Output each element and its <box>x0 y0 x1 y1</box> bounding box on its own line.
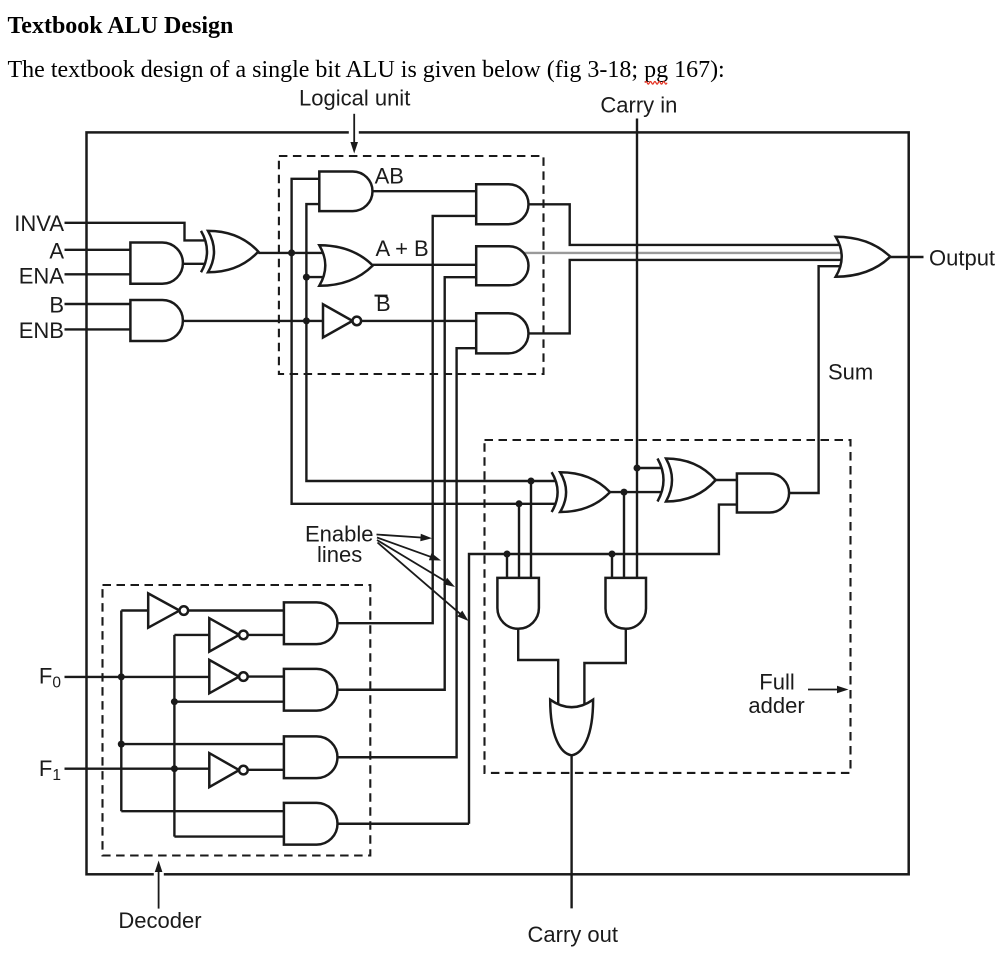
svg-text:B: B <box>49 293 64 318</box>
junction F1 upper <box>171 698 178 705</box>
junction enable right <box>609 551 616 558</box>
wire sum from adder and-gate up to big or <box>789 266 842 493</box>
svg-text:ENA: ENA <box>19 263 65 288</box>
and gate enable not B <box>476 313 528 353</box>
wire inverter 2 output <box>248 634 287 636</box>
decoder and gate 2 <box>284 669 338 711</box>
svg-text:F1: F1 <box>39 756 61 784</box>
wire xor output A into logical unit <box>258 252 322 254</box>
wire F1 riser <box>173 635 175 837</box>
wire enable line 3 decoder to not-B and-gate <box>338 348 481 757</box>
wire A input <box>65 249 134 251</box>
wire F1 input <box>65 768 179 770</box>
wire right carry and-gate output to or <box>584 629 625 708</box>
wire F0 branch to decoder and 4 <box>121 810 287 812</box>
and gate enable A plus B <box>476 246 528 285</box>
junction F1 main <box>171 765 178 772</box>
wire bus top from first and gate <box>529 204 846 245</box>
junction B wire <box>303 317 310 324</box>
wire AB gate output <box>373 190 481 192</box>
wire enable line 2 decoder to A+B and-gate <box>338 277 481 690</box>
logical unit dashed box <box>279 156 544 374</box>
or gate A plus B <box>319 245 373 286</box>
svg-text:Output: Output <box>929 245 995 270</box>
svg-text:A + B: A + B <box>376 236 429 261</box>
wire enable line 1 decoder to AB and-gate <box>338 216 481 623</box>
wire F1 branch to decoder and 4 <box>174 835 287 837</box>
inverter decoder 1 <box>148 593 179 627</box>
svg-text:Full: Full <box>759 670 794 695</box>
svg-text:Sum: Sum <box>828 360 873 385</box>
wire not-B output <box>362 320 480 322</box>
wire F1 branch to decoder and 2 <box>174 701 287 703</box>
junction enable left <box>504 551 511 558</box>
junction F0 main <box>118 673 125 680</box>
wire A riser to AB gate and down to full adder <box>292 179 555 504</box>
arrow enable line 1 <box>377 534 433 542</box>
svg-text:Carry out: Carry out <box>528 922 618 947</box>
wire adder enable line <box>469 505 740 824</box>
wire xor1 output to xor2 <box>610 491 662 493</box>
wire A+B or output <box>373 264 480 266</box>
wire branch A down to carry and-gate <box>518 504 520 580</box>
arrow to decoder box <box>154 861 164 909</box>
xor gate A INVA <box>201 231 207 272</box>
wire F1 to inverter 2 <box>174 634 212 636</box>
svg-text:Decoder: Decoder <box>118 908 201 933</box>
decoder and gate 1 <box>284 602 338 644</box>
wire F0 to inverter 1 <box>121 609 151 611</box>
overline of not B <box>375 295 388 297</box>
junction carry-in at xor2 <box>634 465 641 472</box>
or gate output <box>836 237 891 277</box>
wire enable line 4 decoder to full adder <box>338 823 470 825</box>
inverter decoder 3 <box>209 660 239 693</box>
wire F0 input <box>65 676 214 678</box>
wire ENA input <box>65 273 134 275</box>
wire enable branch to right carry and-gate <box>611 554 613 580</box>
junction A at xor1 <box>516 500 523 507</box>
arrow enable line 4 <box>378 543 469 622</box>
and gate carry right <box>606 578 647 629</box>
junction A wire <box>288 249 295 256</box>
wire F1 into inverter 4 <box>174 768 212 770</box>
svg-text:INVA: INVA <box>14 211 64 236</box>
junction F0 lower <box>118 741 125 748</box>
wire xor2 output to sum and-gate <box>716 479 740 481</box>
decoder dashed box <box>103 585 371 856</box>
wire enable branch to left carry and-gate <box>506 554 508 580</box>
wire carry-in vertical <box>636 119 638 581</box>
svg-text:lines: lines <box>317 542 362 567</box>
or gate carry out <box>550 700 593 756</box>
wire F0 branch to decoder and 3 <box>121 743 287 745</box>
wire bus bottom from third and gate <box>529 260 846 334</box>
svg-text:adder: adder <box>748 693 804 718</box>
and gate enable AB <box>476 184 528 224</box>
wire B-and output to inverter <box>183 320 325 322</box>
xor gate adder 2 <box>658 459 664 502</box>
spellcheck squiggle under pg <box>645 82 667 85</box>
arrow to full adder box <box>808 686 849 694</box>
xor gate adder 1 <box>552 472 558 512</box>
junction B to or gate <box>303 274 310 281</box>
and gate sum enable <box>737 474 789 513</box>
inverter decoder 2 <box>209 618 239 651</box>
wire A-and output to xor <box>183 263 206 265</box>
wire inverter 4 output <box>248 769 287 771</box>
outer boundary box <box>87 132 909 874</box>
svg-text:Textbook ALU Design: Textbook ALU Design <box>8 13 234 39</box>
wire carry-in branch to xor2 <box>637 467 662 469</box>
svg-text:Logical unit: Logical unit <box>299 86 410 111</box>
svg-text:The textbook design of a singl: The textbook design of a single bit ALU … <box>8 57 725 83</box>
and gate B ENB <box>130 300 183 341</box>
wire F0 riser <box>120 611 122 812</box>
and gate A ENA <box>130 243 183 284</box>
wire carry out <box>570 755 572 908</box>
decoder and gate 4 <box>284 803 338 845</box>
svg-text:Carry in: Carry in <box>600 93 677 118</box>
wire left carry and-gate output to or <box>518 629 558 708</box>
arrow enable line 2 <box>377 538 441 561</box>
full adder dashed box <box>485 440 851 773</box>
wire xor1-out branch down to right carry and-gate <box>623 492 625 580</box>
wire B branch to or gate <box>306 276 324 278</box>
and gate AB <box>319 172 372 212</box>
decoder and gate 3 <box>284 736 338 778</box>
arrow enable line 3 <box>377 540 455 587</box>
inverter not B <box>323 304 353 337</box>
wire inverter 3 output <box>248 675 287 677</box>
and gate carry left <box>497 578 539 629</box>
wire INVA input <box>65 223 206 241</box>
wire inverter 1 output <box>188 609 287 611</box>
svg-text:AB: AB <box>375 163 404 188</box>
wire branch B down to carry and-gate <box>530 481 532 580</box>
junction B at xor1 <box>528 478 535 485</box>
wire ENB input <box>65 328 134 330</box>
wire B riser to AB gate and down to full adder <box>306 204 555 481</box>
svg-text:F0: F0 <box>39 663 61 691</box>
arrow to logical unit box <box>349 114 359 154</box>
junction xor1 out <box>621 489 628 496</box>
svg-text:ENB: ENB <box>19 318 64 343</box>
inverter decoder 4 <box>209 753 239 787</box>
wire B input <box>65 303 134 305</box>
svg-text:A: A <box>49 239 64 264</box>
wire gray A+B gate output bus middle <box>524 252 845 254</box>
wire output from big or gate <box>890 256 923 258</box>
